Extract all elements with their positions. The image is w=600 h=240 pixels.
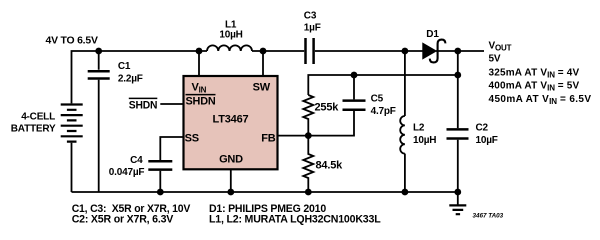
svg-text:1µF: 1µF — [304, 22, 321, 33]
svg-text:D1: D1 — [426, 29, 439, 40]
diode D1 schottky cathode — [430, 40, 446, 63]
capacitor C1 — [98, 51, 100, 192]
svg-text:4.7pF: 4.7pF — [371, 106, 396, 117]
svg-text:2.2µF: 2.2µF — [118, 74, 143, 85]
resistor R2 84.5k — [303, 136, 313, 192]
capacitor C4 — [148, 161, 172, 169]
node SW tap — [260, 48, 267, 55]
node C2 gnd — [454, 189, 461, 196]
svg-text:C2: C2 — [476, 122, 489, 133]
svg-text:5V: 5V — [489, 53, 501, 64]
node FB divider — [305, 132, 312, 139]
wire VIN pin — [198, 51, 200, 75]
node R2 gnd — [305, 189, 312, 196]
svg-text:10µH: 10µH — [219, 29, 242, 40]
svg-text:L2: L2 — [413, 122, 425, 133]
svg-text:LT3467: LT3467 — [213, 114, 249, 126]
ground symbol — [457, 192, 459, 205]
node VOUT — [454, 48, 461, 55]
node L2 gnd — [402, 189, 409, 196]
capacitor C5 branch — [308, 75, 354, 136]
svg-text:4V TO 6.5V: 4V TO 6.5V — [46, 36, 99, 47]
wire feedback top (R1 top to VOUT) — [308, 75, 458, 95]
inductor L2 — [400, 116, 405, 154]
inductor L1 — [207, 45, 252, 51]
node FB sense — [454, 72, 461, 79]
node VIN tap — [196, 48, 203, 55]
svg-text:BATTERY: BATTERY — [11, 123, 56, 134]
svg-text:3467 TA03: 3467 TA03 — [473, 212, 504, 219]
wire ss pin to C4 — [160, 137, 182, 160]
wire FB pin — [279, 135, 309, 137]
svg-text:SHDN: SHDN — [129, 100, 158, 112]
svg-text:FB: FB — [261, 132, 276, 144]
wire top rail left — [72, 51, 208, 103]
battery B1 4-cell — [71, 143, 73, 192]
node C5 top — [351, 72, 358, 79]
node GND pin — [227, 189, 234, 196]
wire C3 to D1 — [315, 50, 423, 52]
wire D1 cathode to VOUT — [436, 50, 484, 52]
svg-text:4-CELL: 4-CELL — [21, 112, 55, 123]
node D1 anode — [402, 48, 409, 55]
svg-text:255k: 255k — [315, 101, 340, 113]
svg-text:SHDN: SHDN — [186, 95, 216, 107]
resistor R1 255k — [303, 95, 313, 136]
wire L1 to C3 — [252, 50, 304, 52]
svg-text:10µF: 10µF — [476, 135, 498, 146]
capacitor C2 branch — [457, 51, 459, 192]
svg-text:10µH: 10µH — [413, 135, 436, 146]
svg-text:450mA AT VIN = 6.5V: 450mA AT VIN = 6.5V — [489, 94, 592, 106]
svg-text:SS: SS — [185, 132, 199, 144]
node C1 top — [95, 48, 102, 55]
svg-text:GND: GND — [219, 153, 243, 165]
svg-text:0.047µF: 0.047µF — [109, 167, 145, 178]
svg-text:C5: C5 — [371, 93, 384, 104]
svg-text:84.5k: 84.5k — [316, 159, 344, 171]
svg-text:SW: SW — [253, 82, 271, 94]
svg-text:L1, L2: MURATA LQH32CN100K33L: L1, L2: MURATA LQH32CN100K33L — [209, 213, 381, 225]
svg-text:C1: C1 — [118, 61, 131, 72]
wire SW pin — [262, 51, 264, 75]
svg-text:C3: C3 — [304, 11, 317, 22]
node C4 gnd — [157, 189, 164, 196]
wire D1 anode drop to L2 — [404, 51, 406, 116]
svg-text:400mA AT VIN = 5V: 400mA AT VIN = 5V — [489, 81, 580, 93]
wire bottom ground rail — [72, 191, 458, 193]
svg-text:C4: C4 — [130, 155, 143, 166]
wire shdn pin — [160, 103, 182, 105]
capacitor C3 — [306, 38, 314, 64]
svg-text:325mA AT VIN = 4V: 325mA AT VIN = 4V — [489, 67, 580, 79]
diode D1 triangle — [423, 43, 436, 58]
wire GND pin — [230, 170, 232, 192]
IC U1 LT3467 box — [184, 76, 278, 169]
svg-text:C2: X5R or X7R, 6.3V: C2: X5R or X7R, 6.3V — [72, 213, 174, 225]
